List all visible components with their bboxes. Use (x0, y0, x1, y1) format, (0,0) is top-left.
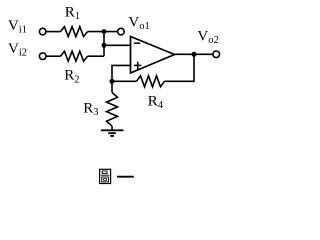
op-amp plus input symbol (134, 62, 141, 69)
svg-text:R3: R3 (83, 101, 98, 119)
terminal Vo1 circle (118, 28, 125, 35)
wire node C to R4 (112, 80, 137, 82)
node B junction dot (102, 43, 107, 48)
wire R1 to node A and Vo1 terminal (88, 31, 118, 33)
output node junction dot (192, 52, 197, 57)
svg-text:Vo2: Vo2 (197, 29, 218, 47)
svg-text:R2: R2 (64, 68, 79, 86)
svg-text:R4: R4 (148, 93, 164, 111)
terminal Vo2 circle (213, 51, 220, 58)
ground (101, 130, 124, 136)
terminal Vi1 circle (39, 28, 46, 35)
wire R3 to ground (111, 126, 113, 130)
node C junction dot (110, 79, 115, 84)
svg-text:Vo1: Vo1 (128, 15, 149, 33)
caption glyph 圖 (100, 169, 111, 183)
op-amp minus input symbol (134, 42, 140, 44)
node A junction dot (102, 29, 107, 34)
wire Vi1 to R1 (46, 31, 60, 33)
wire R2 to node B riser (88, 55, 105, 57)
wire Vi2 to R2 (46, 55, 60, 57)
resistor R2 (61, 51, 88, 61)
op-amp U1 triangle (131, 37, 175, 74)
svg-text:Vi1: Vi1 (8, 18, 27, 36)
svg-text:Vi2: Vi2 (8, 41, 27, 59)
wire node B to inverting input (104, 44, 131, 46)
wire noninverting input to node C (112, 65, 131, 92)
wire op-amp output to Vo2 (175, 53, 213, 55)
wire R4 to output node (165, 54, 195, 81)
svg-text:R1: R1 (65, 5, 80, 23)
caption glyph 一 (117, 176, 134, 178)
wire node A down to R2 line (103, 32, 105, 57)
resistor R4 (137, 76, 165, 87)
resistor R1 (61, 27, 88, 37)
resistor R3 (107, 93, 118, 127)
terminal Vi2 circle (39, 53, 46, 60)
